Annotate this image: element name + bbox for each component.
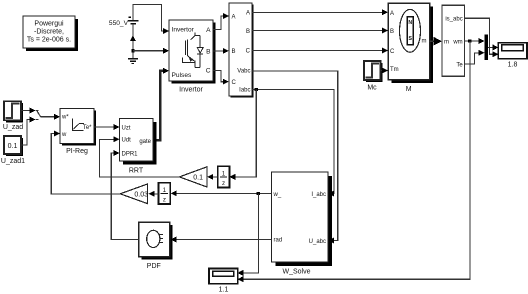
PI-Reg curve icon xyxy=(73,119,85,132)
svg-text:B: B xyxy=(232,49,236,55)
wire PDF output to RRT DPR1 xyxy=(111,150,138,239)
wire unit delay 2 to gain 0.03 xyxy=(149,191,159,197)
RRT label xyxy=(129,168,144,175)
wire meas Vabc to W_Solve U_abc xyxy=(252,71,338,244)
svg-text:C: C xyxy=(232,80,237,86)
svg-text:0.1: 0.1 xyxy=(193,174,203,181)
invertor label xyxy=(179,87,203,94)
svg-text:N: N xyxy=(408,20,412,26)
mux bar xyxy=(485,35,489,61)
node Iabc junction xyxy=(255,88,258,91)
svg-text:0.03: 0.03 xyxy=(134,191,148,198)
svg-text:1.8: 1.8 xyxy=(508,61,518,68)
svg-text:Te*: Te* xyxy=(83,125,92,131)
display 1.8 label xyxy=(508,61,518,68)
wire w_ branch to display 1.1 input 1 xyxy=(238,193,259,276)
three-phase VI measurement block xyxy=(229,3,254,98)
wire battery top to invertor input 1 xyxy=(133,4,169,34)
svg-text:M: M xyxy=(406,86,412,93)
display 1.8 xyxy=(498,43,527,59)
svg-text:m: m xyxy=(444,40,449,46)
wire meas A to motor A xyxy=(252,9,388,15)
svg-text:PDF: PDF xyxy=(147,263,161,270)
wire mux to display 1.8 xyxy=(488,44,498,50)
svg-text:Vabc: Vabc xyxy=(237,68,250,74)
svg-text:wm: wm xyxy=(452,40,462,46)
wire Mc to motor Tm xyxy=(381,67,389,73)
powergui block xyxy=(23,16,78,51)
svg-text:Te: Te xyxy=(456,62,463,68)
svg-text:Powergui: Powergui xyxy=(34,21,64,28)
svg-text:W_Solve: W_Solve xyxy=(282,269,310,276)
svg-text:z: z xyxy=(163,197,166,204)
svg-text:w*: w* xyxy=(61,115,69,121)
wire U_zad to switch contact 1 xyxy=(21,108,39,114)
node wm junction xyxy=(468,40,471,43)
wire gain 0.1 to RRT Udt xyxy=(100,136,180,177)
Mc step block xyxy=(364,61,383,82)
svg-text:U_zad1: U_zad1 xyxy=(1,158,25,165)
battery 550_V symbol xyxy=(128,16,138,23)
svg-text:B: B xyxy=(390,29,394,35)
svg-text:-Discrete,: -Discrete, xyxy=(34,29,64,36)
svg-text:C: C xyxy=(206,68,211,75)
wire wm down to display 1.1 input 2 xyxy=(238,41,470,282)
svg-text:550_V: 550_V xyxy=(109,20,129,27)
wire PI-Reg Te* to RRT Uzt xyxy=(94,124,120,130)
svg-text:gate: gate xyxy=(139,139,151,145)
wire unit delay 1 to gain 0.1 xyxy=(207,174,217,180)
svg-text:U_abc: U_abc xyxy=(309,239,326,245)
gain 0.1 xyxy=(179,167,207,187)
svg-text:Mc: Mc xyxy=(367,85,377,92)
wire gain 0.03 to PI-Reg w xyxy=(51,131,120,194)
node w_ junction xyxy=(257,192,260,195)
PDF label xyxy=(147,263,161,270)
svg-text:B: B xyxy=(206,48,211,55)
Mc label xyxy=(367,85,377,92)
svg-text:z: z xyxy=(222,180,225,187)
svg-text:Ts = 2e-006 s.: Ts = 2e-006 s. xyxy=(27,37,71,44)
svg-text:A: A xyxy=(246,11,250,17)
svg-text:w_: w_ xyxy=(273,192,282,198)
wire invertor C to meas C xyxy=(213,70,229,84)
motor ellipse icon with N S magnet xyxy=(400,9,421,52)
svg-text:PI-Reg: PI-Reg xyxy=(66,148,88,155)
U_zad label xyxy=(3,124,23,131)
svg-text:0.1: 0.1 xyxy=(8,143,18,150)
svg-text:Udt: Udt xyxy=(122,138,132,144)
unit delay 1 xyxy=(218,166,230,187)
svg-text:I_abc: I_abc xyxy=(311,192,326,198)
invertor block U1 xyxy=(169,20,216,84)
node battery middle junction xyxy=(131,49,134,52)
svg-text:A: A xyxy=(232,14,236,20)
svg-text:m: m xyxy=(422,39,427,45)
wire W_Solve w_ to unit delay 2 xyxy=(171,191,272,197)
svg-text:A: A xyxy=(206,27,211,34)
svg-text:DPR1: DPR1 xyxy=(122,151,139,157)
svg-text:U_zad: U_zad xyxy=(3,124,23,131)
invertor IGBT icon xyxy=(183,33,204,68)
svg-text:B: B xyxy=(246,29,250,35)
unit delay 2 xyxy=(159,183,171,204)
wire motor m to bus selector xyxy=(430,37,443,46)
svg-text:Uzt: Uzt xyxy=(122,125,131,131)
wire W_Solve rad to PDF xyxy=(171,237,272,243)
PI-Reg label xyxy=(66,148,88,155)
motor label M xyxy=(406,86,412,93)
wire switch to PI-Reg w* xyxy=(40,114,60,120)
bus selector block xyxy=(442,5,465,76)
svg-text:1: 1 xyxy=(222,170,226,177)
svg-text:S: S xyxy=(408,36,412,42)
svg-text:w: w xyxy=(61,132,67,138)
wire wm to mux xyxy=(465,38,485,44)
wire Te to mux xyxy=(465,50,485,64)
svg-text:C: C xyxy=(246,49,251,55)
wire invertor A to meas A xyxy=(213,13,229,29)
wire is_abc to display 1.8 input 2 xyxy=(465,18,499,57)
PDF block xyxy=(139,222,173,260)
svg-text:Iabc: Iabc xyxy=(239,88,250,94)
svg-text:1.1: 1.1 xyxy=(219,287,229,294)
RRT block xyxy=(120,119,157,165)
gain 0.03 xyxy=(120,184,148,204)
DC source 550_V label xyxy=(109,20,129,27)
wire battery junction to invertor input 2 xyxy=(133,48,169,54)
W_Solve label xyxy=(282,269,310,276)
wire Iabc branch to unit delay 1 xyxy=(229,89,256,179)
wire meas Iabc to W_Solve I_abc xyxy=(252,89,334,196)
ground xyxy=(128,59,138,64)
U_zad1 constant block xyxy=(4,136,23,156)
svg-text:1: 1 xyxy=(163,187,167,194)
svg-text:A: A xyxy=(390,11,394,17)
manual switch lever xyxy=(37,111,41,116)
svg-text:Invertor: Invertor xyxy=(179,87,203,94)
W_Solve block xyxy=(272,172,333,266)
svg-text:Tm: Tm xyxy=(390,67,399,73)
wire invertor B to meas B xyxy=(213,48,229,54)
wire battery bottom to ground xyxy=(130,24,136,59)
display 1.1 label xyxy=(219,287,229,294)
U_zad1 label xyxy=(1,158,25,165)
svg-text:RRT: RRT xyxy=(129,168,144,175)
wire meas B to motor B xyxy=(252,28,388,34)
svg-text:C: C xyxy=(390,49,395,55)
svg-text:rad: rad xyxy=(274,238,283,244)
U_zad step block xyxy=(4,101,23,122)
wire gate to pulses (thick) xyxy=(153,68,169,141)
display 1.1 xyxy=(209,269,238,284)
svg-text:is_abc: is_abc xyxy=(445,17,462,23)
svg-text:Pulses: Pulses xyxy=(172,72,192,79)
motor block M xyxy=(388,3,433,83)
PI-Reg block xyxy=(60,109,96,146)
wire U_zad1 to switch contact 2 xyxy=(21,117,39,146)
wire meas C to motor C xyxy=(252,47,388,53)
svg-text:Invertor: Invertor xyxy=(172,27,195,34)
